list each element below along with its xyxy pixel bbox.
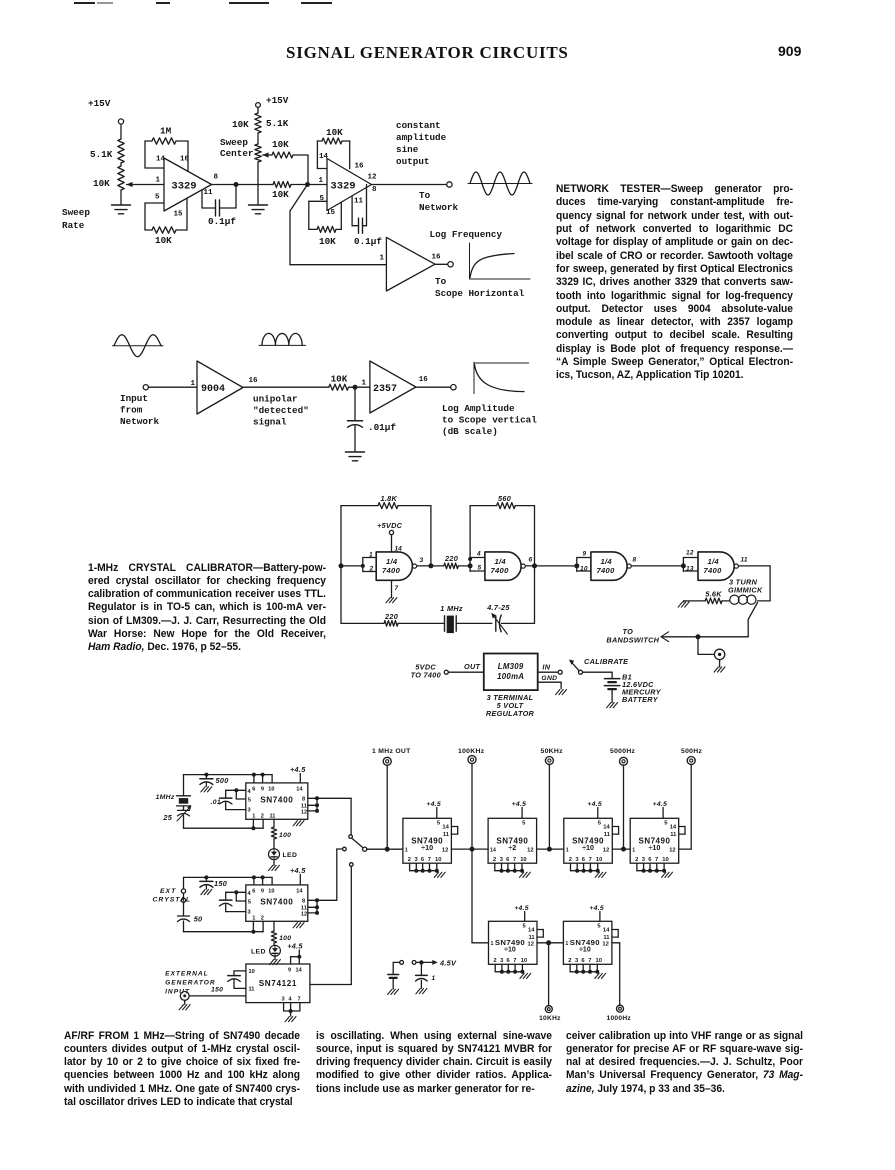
wire G3 inputs (574, 558, 591, 572)
wire osc1 bottom (184, 819, 264, 830)
switch contact C (350, 863, 354, 985)
capacitor .01 osc1 (211, 788, 246, 809)
svg-text:Network: Network (120, 416, 159, 427)
rectified wave symbol (259, 333, 306, 345)
svg-text:EXTERNAL: EXTERNAL (165, 971, 209, 978)
svg-text:12: 12 (442, 848, 448, 854)
svg-text:4.5V: 4.5V (439, 959, 457, 968)
svg-text:12: 12 (602, 941, 608, 947)
text block crystal calibrator (88, 562, 326, 655)
wire U4 out to 10K (243, 386, 329, 388)
label +4.5 osc1 (290, 765, 306, 783)
wire 5000Hz drop (623, 765, 625, 849)
node detector (353, 385, 358, 390)
terminal 50KHz (541, 748, 564, 765)
svg-text:14: 14 (603, 928, 610, 934)
svg-text:5.1K: 5.1K (266, 118, 289, 129)
wire U10 to U11 (537, 940, 563, 945)
svg-text:25: 25 (162, 813, 172, 822)
page number 909 (778, 43, 801, 59)
svg-text:LED: LED (283, 852, 298, 859)
LED1 (269, 849, 298, 860)
switch arm (352, 838, 363, 847)
sine wave symbol output (468, 172, 532, 195)
svg-text:3: 3 (642, 857, 646, 863)
svg-text:"detected": "detected" (253, 405, 309, 416)
ground LED1 (269, 860, 280, 871)
svg-text:14: 14 (296, 787, 303, 793)
svg-text:11: 11 (604, 832, 611, 838)
svg-text:6: 6 (648, 857, 652, 863)
svg-text:1M: 1M (160, 126, 172, 137)
text column 1 (64, 1030, 300, 1110)
svg-text:5: 5 (478, 565, 482, 572)
phone jack output (698, 637, 725, 672)
resistor 10K detector (329, 374, 370, 391)
ground osc2 pin7 (293, 923, 304, 928)
resistor 10K sweep center to node (272, 139, 308, 185)
label constant amplitude sine output (396, 120, 447, 167)
IC SN7400 ext (246, 885, 308, 921)
svg-text:6: 6 (421, 857, 425, 863)
svg-text:8: 8 (372, 186, 377, 194)
svg-text:10K: 10K (319, 236, 336, 247)
svg-text:3: 3 (248, 808, 251, 814)
op-amp U3 log (380, 237, 442, 291)
label +4.5 mvbr (287, 942, 303, 957)
svg-text:10: 10 (268, 787, 274, 793)
wire osc1 outputs bracket (308, 796, 319, 813)
svg-text:10: 10 (662, 857, 668, 863)
coil 3 turn gimmick (728, 578, 763, 605)
terminal 5VDC out (444, 662, 484, 674)
svg-text:11: 11 (603, 935, 610, 941)
resistor 10K feedback loop U2 (317, 127, 349, 169)
capacitor 150 mvbr (211, 971, 246, 994)
wire G3 output (632, 557, 684, 566)
svg-text:1: 1 (405, 847, 408, 853)
resistor 1M feedback loop U1 (145, 126, 188, 171)
NAND gate G1 1/4 7400 (369, 552, 417, 581)
svg-text:14: 14 (442, 825, 449, 831)
resistor 1.8K feedback (341, 494, 431, 566)
svg-text:1: 1 (380, 255, 385, 263)
svg-text:1: 1 (252, 915, 255, 921)
resistor 220 crystal path (341, 612, 445, 626)
svg-text:12: 12 (528, 941, 534, 947)
svg-text:1.8K: 1.8K (381, 494, 398, 503)
svg-text:220: 220 (444, 554, 458, 563)
terminal Input from Network (120, 385, 159, 427)
wire G4 output (739, 557, 771, 601)
svg-text:7: 7 (655, 857, 658, 863)
svg-text:9: 9 (261, 787, 264, 793)
wire G2 inputs (468, 553, 485, 572)
svg-text:7: 7 (513, 857, 516, 863)
wire U8 to U9 (612, 847, 630, 852)
svg-text:TO 7400: TO 7400 (411, 671, 441, 680)
IC SN7490 U9 (630, 818, 685, 877)
svg-text:10K: 10K (155, 235, 172, 246)
wire +4.5 U9 (653, 801, 668, 818)
svg-text:0.1µf: 0.1µf (208, 216, 236, 227)
svg-text:12: 12 (368, 174, 378, 182)
svg-text:10K: 10K (93, 178, 110, 189)
IC SN7490 U7 (488, 818, 536, 877)
op-amp U2 3329 (319, 153, 378, 217)
wire node to log amp (290, 185, 386, 265)
svg-text:÷10: ÷10 (579, 947, 591, 954)
capacitor 150 osc2 (200, 875, 227, 894)
NAND gate G4 1/4 7400 (686, 550, 738, 581)
capacitor 1 filter (416, 962, 436, 993)
svg-text:14: 14 (156, 156, 166, 164)
svg-text:10: 10 (268, 889, 274, 895)
terminal +5VDC (377, 521, 403, 553)
svg-text:to Scope vertical: to Scope vertical (442, 415, 537, 426)
ground LED2 (270, 956, 281, 965)
svg-text:4: 4 (248, 789, 252, 795)
svg-text:÷10: ÷10 (582, 843, 594, 852)
terminal 500Hz (681, 748, 702, 765)
svg-text:6: 6 (506, 857, 510, 863)
wire +4.5 rail osc2 (184, 875, 273, 885)
svg-text:LM309: LM309 (498, 662, 524, 671)
terminal 100KHz (458, 748, 485, 764)
svg-text:1: 1 (491, 941, 494, 947)
svg-text:Network: Network (419, 202, 458, 213)
svg-text:÷10: ÷10 (648, 843, 660, 852)
svg-text:Log Frequency: Log Frequency (430, 229, 503, 240)
svg-text:1: 1 (252, 813, 255, 819)
resistor 10K to summing node (236, 182, 308, 201)
svg-text:11: 11 (741, 557, 748, 564)
op-amp U5 2357 (362, 361, 429, 413)
switch pole (363, 847, 367, 851)
wire left rail (340, 506, 342, 624)
svg-text:To: To (419, 190, 431, 201)
svg-text:SN7400: SN7400 (260, 796, 293, 805)
svg-text:11: 11 (249, 987, 255, 993)
wire +4.5 rail osc1 (184, 773, 273, 783)
svg-text:(dB scale): (dB scale) (442, 426, 498, 437)
svg-text:output: output (396, 156, 429, 167)
svg-text:11: 11 (529, 935, 536, 941)
svg-text:5: 5 (598, 821, 602, 827)
svg-text:5: 5 (248, 797, 251, 803)
resistor 5.1K sweep center (232, 113, 289, 133)
svg-text:÷2: ÷2 (508, 843, 516, 852)
svg-text:sine: sine (396, 144, 419, 155)
wire 500Hz drop (690, 764, 692, 849)
op-amp U1 3329 (155, 156, 219, 219)
svg-text:+4.5: +4.5 (514, 905, 529, 912)
trimmer 25 (162, 805, 191, 828)
svg-text:7: 7 (589, 857, 592, 863)
graph log amplitude decay (474, 362, 529, 393)
svg-text:4: 4 (476, 551, 481, 558)
svg-text:amplitude: amplitude (396, 132, 447, 143)
label 5VDC TO 7400 (411, 663, 441, 680)
svg-text:14: 14 (319, 153, 329, 161)
svg-text:10: 10 (249, 969, 255, 975)
svg-text:7400: 7400 (704, 566, 723, 575)
scan artifact dashes top (74, 2, 95, 4)
terminal To Network (419, 182, 458, 213)
svg-text:6: 6 (507, 958, 511, 964)
svg-text:11: 11 (270, 813, 276, 819)
svg-text:10: 10 (580, 566, 588, 573)
svg-text:LED: LED (251, 949, 266, 956)
svg-text:15: 15 (326, 209, 336, 217)
wire gimmick to bandswitch line (662, 603, 758, 637)
capacitor 500 (200, 773, 229, 792)
resistor 5.6K (684, 590, 730, 604)
svg-text:.01µf: .01µf (368, 422, 396, 433)
svg-text:OUT: OUT (464, 662, 481, 671)
svg-text:12: 12 (686, 550, 694, 557)
wire +15V sweep center (256, 95, 289, 113)
svg-text:7400: 7400 (382, 566, 401, 575)
svg-text:5: 5 (597, 924, 601, 930)
svg-text:12: 12 (301, 911, 307, 917)
label unipolar detected signal (253, 394, 309, 428)
switch CALIBRATE (569, 657, 629, 674)
svg-text:9: 9 (583, 551, 587, 558)
svg-text:+4.5: +4.5 (512, 801, 527, 808)
svg-text:3: 3 (500, 958, 504, 964)
svg-text:3: 3 (500, 857, 504, 863)
resistor 100 LED1 (271, 819, 291, 848)
svg-text:+4.5: +4.5 (290, 866, 306, 875)
svg-text:+4.5: +4.5 (426, 801, 441, 808)
svg-text:+4.5: +4.5 (587, 801, 602, 808)
svg-text:÷10: ÷10 (421, 843, 433, 852)
svg-text:6: 6 (529, 557, 533, 564)
svg-text:9: 9 (288, 968, 291, 974)
svg-text:220: 220 (384, 612, 398, 621)
svg-text:12: 12 (301, 809, 307, 815)
wire U11 output 1000Hz (612, 943, 620, 1006)
node summing (305, 182, 310, 187)
resistor 220 coupling (444, 554, 470, 569)
svg-text:1: 1 (191, 380, 196, 388)
terminal 10KHz (539, 1006, 561, 1022)
svg-text:14: 14 (296, 968, 303, 974)
IC SN7490 U11 (563, 921, 618, 978)
wire U9 output to 500Hz (679, 848, 692, 850)
node U1 out (234, 182, 239, 187)
wire U6 to U7 (451, 847, 488, 852)
jack external input (179, 992, 246, 1010)
svg-text:5: 5 (155, 194, 160, 202)
svg-text:2: 2 (568, 958, 571, 964)
svg-text:10K: 10K (326, 127, 343, 138)
svg-text:8: 8 (214, 174, 219, 182)
svg-text:1/4: 1/4 (601, 557, 613, 566)
IC SN74121 (246, 964, 310, 1003)
svg-text:5: 5 (437, 821, 441, 827)
switch contact A (349, 835, 353, 839)
sine wave symbol input (113, 335, 164, 357)
svg-text:Input: Input (120, 393, 148, 404)
svg-text:2: 2 (493, 857, 496, 863)
NAND gate G2 1/4 7400 (476, 551, 525, 581)
wire 10KHz output (548, 943, 550, 1006)
capacitor 0.1uf U1 (202, 185, 236, 228)
svg-text:4: 4 (248, 891, 252, 897)
svg-text:10: 10 (596, 857, 602, 863)
svg-text:5000Hz: 5000Hz (610, 748, 636, 755)
svg-text:2: 2 (261, 915, 264, 921)
svg-text:16: 16 (249, 377, 259, 385)
svg-text:15: 15 (174, 211, 184, 219)
svg-text:5.6K: 5.6K (705, 590, 722, 599)
svg-text:+5VDC: +5VDC (377, 521, 403, 530)
svg-text:÷10: ÷10 (504, 947, 516, 954)
terminal 5000Hz (610, 748, 636, 765)
ground G1 pin 7 (386, 580, 399, 603)
ground sweep center pot (249, 205, 268, 214)
label Log Amplitude to Scope vertical (442, 403, 537, 437)
wire G2 output (526, 557, 577, 569)
text column 2 (316, 1030, 552, 1097)
svg-text:5: 5 (664, 821, 668, 827)
label Log Frequency (430, 229, 503, 240)
wire +4.5 U11 (589, 905, 604, 921)
svg-text:3: 3 (282, 997, 285, 1003)
LED2 (251, 945, 280, 956)
svg-text:14: 14 (296, 889, 303, 895)
svg-text:+4.5: +4.5 (290, 765, 306, 774)
svg-text:+4.5: +4.5 (589, 905, 604, 912)
svg-text:2: 2 (569, 857, 572, 863)
resistor 10K lower loop U2 (309, 201, 342, 247)
svg-text:14: 14 (528, 928, 535, 934)
wire osc2 bottom (184, 921, 264, 933)
potentiometer 10K Sweep Rate (93, 163, 140, 205)
wire osc2 outputs bracket (308, 898, 337, 915)
svg-text:Rate: Rate (62, 220, 85, 231)
wire 100KHz drop (471, 763, 473, 849)
wire U1 output (212, 184, 237, 186)
svg-text:7400: 7400 (597, 566, 616, 575)
svg-text:1: 1 (362, 380, 367, 388)
svg-text:constant: constant (396, 120, 441, 131)
terminals EXT CRYSTAL (153, 877, 191, 915)
svg-text:8: 8 (633, 557, 637, 564)
svg-text:10K: 10K (272, 189, 289, 200)
IC SN7490 U10 (489, 921, 544, 978)
svg-text:1000Hz: 1000Hz (607, 1015, 632, 1022)
svg-text:50: 50 (194, 915, 203, 924)
svg-text:16: 16 (355, 163, 365, 171)
terminal to scope vertical (416, 385, 456, 390)
battery B1 12.6VDC (604, 673, 661, 708)
svg-text:10: 10 (520, 857, 526, 863)
svg-text:10K: 10K (331, 374, 348, 385)
svg-text:13: 13 (686, 566, 694, 573)
wire G1 inputs (339, 558, 377, 572)
capacitor 50 (178, 915, 203, 932)
wire LM309 IN terminal (538, 663, 563, 675)
battery terminal left (388, 961, 404, 995)
wire mvbr supply bracket (291, 955, 302, 964)
svg-text:Center: Center (220, 148, 253, 159)
svg-text:8: 8 (302, 899, 305, 905)
svg-text:4: 4 (289, 997, 293, 1003)
svg-text:1/4: 1/4 (495, 557, 507, 566)
svg-text:10: 10 (596, 958, 602, 964)
svg-text:signal: signal (253, 417, 287, 428)
svg-text:unipolar: unipolar (253, 394, 298, 405)
crystal 1 MHz (440, 604, 492, 633)
ground Sweep Rate pot (112, 205, 131, 214)
svg-text:12: 12 (669, 848, 675, 854)
svg-text:2357: 2357 (373, 384, 397, 395)
capacitor .01uf (348, 387, 397, 452)
svg-text:1 MHz: 1 MHz (440, 604, 463, 613)
capacitor osc2 input (220, 890, 246, 911)
svg-text:6: 6 (252, 889, 255, 895)
trimmer capacitor 4.7-25 (486, 603, 534, 634)
wire +4.5 U7 (512, 801, 527, 818)
svg-text:7: 7 (513, 958, 516, 964)
svg-text:Scope Horizontal: Scope Horizontal (435, 288, 525, 299)
svg-text:GIMMICK: GIMMICK (728, 586, 763, 595)
wire 50KHz drop (548, 764, 550, 849)
terminal 1 MHz OUT (372, 748, 411, 765)
svg-text:3: 3 (248, 910, 251, 916)
svg-text:10: 10 (521, 958, 527, 964)
wire osc1 to switch (317, 798, 351, 834)
svg-text:1 MHz OUT: 1 MHz OUT (372, 748, 411, 755)
svg-text:11: 11 (354, 198, 364, 206)
crystal 1MHz osc (156, 775, 191, 806)
svg-text:5.1K: 5.1K (90, 149, 113, 160)
svg-text:BANDSWITCH: BANDSWITCH (606, 636, 659, 645)
wire G1 output node 3 (417, 557, 444, 568)
switch contact B (337, 847, 346, 900)
wire U2 output to terminal (372, 184, 447, 186)
svg-text:100: 100 (279, 832, 291, 839)
svg-text:.01: .01 (211, 799, 221, 806)
svg-text:10K: 10K (232, 119, 249, 130)
svg-text:1: 1 (632, 847, 635, 853)
wire switch to battery (583, 672, 613, 678)
svg-text:0.1µf: 0.1µf (354, 236, 382, 247)
wire mvbr pins 3 4 7 ground (284, 1003, 300, 1022)
svg-text:11: 11 (670, 832, 677, 838)
svg-text:12: 12 (603, 848, 609, 854)
svg-text:5: 5 (522, 821, 526, 827)
terminal To Scope Horizontal (435, 262, 525, 299)
svg-text:3: 3 (415, 857, 419, 863)
wire node to U2 pin 1 (308, 184, 328, 186)
regulator LM309 (484, 654, 538, 691)
svg-text:1/4: 1/4 (386, 557, 398, 566)
svg-text:3: 3 (420, 557, 424, 564)
svg-text:To: To (435, 276, 447, 287)
wire +4.5 U10 (514, 905, 529, 921)
svg-text:2: 2 (635, 857, 638, 863)
svg-text:14: 14 (670, 825, 677, 831)
svg-text:7: 7 (588, 958, 591, 964)
svg-text:6: 6 (252, 787, 255, 793)
wire 100KHz drop to U10 (472, 849, 489, 943)
svg-text:1/4: 1/4 (708, 557, 720, 566)
svg-text:4.7-25: 4.7-25 (486, 603, 510, 612)
